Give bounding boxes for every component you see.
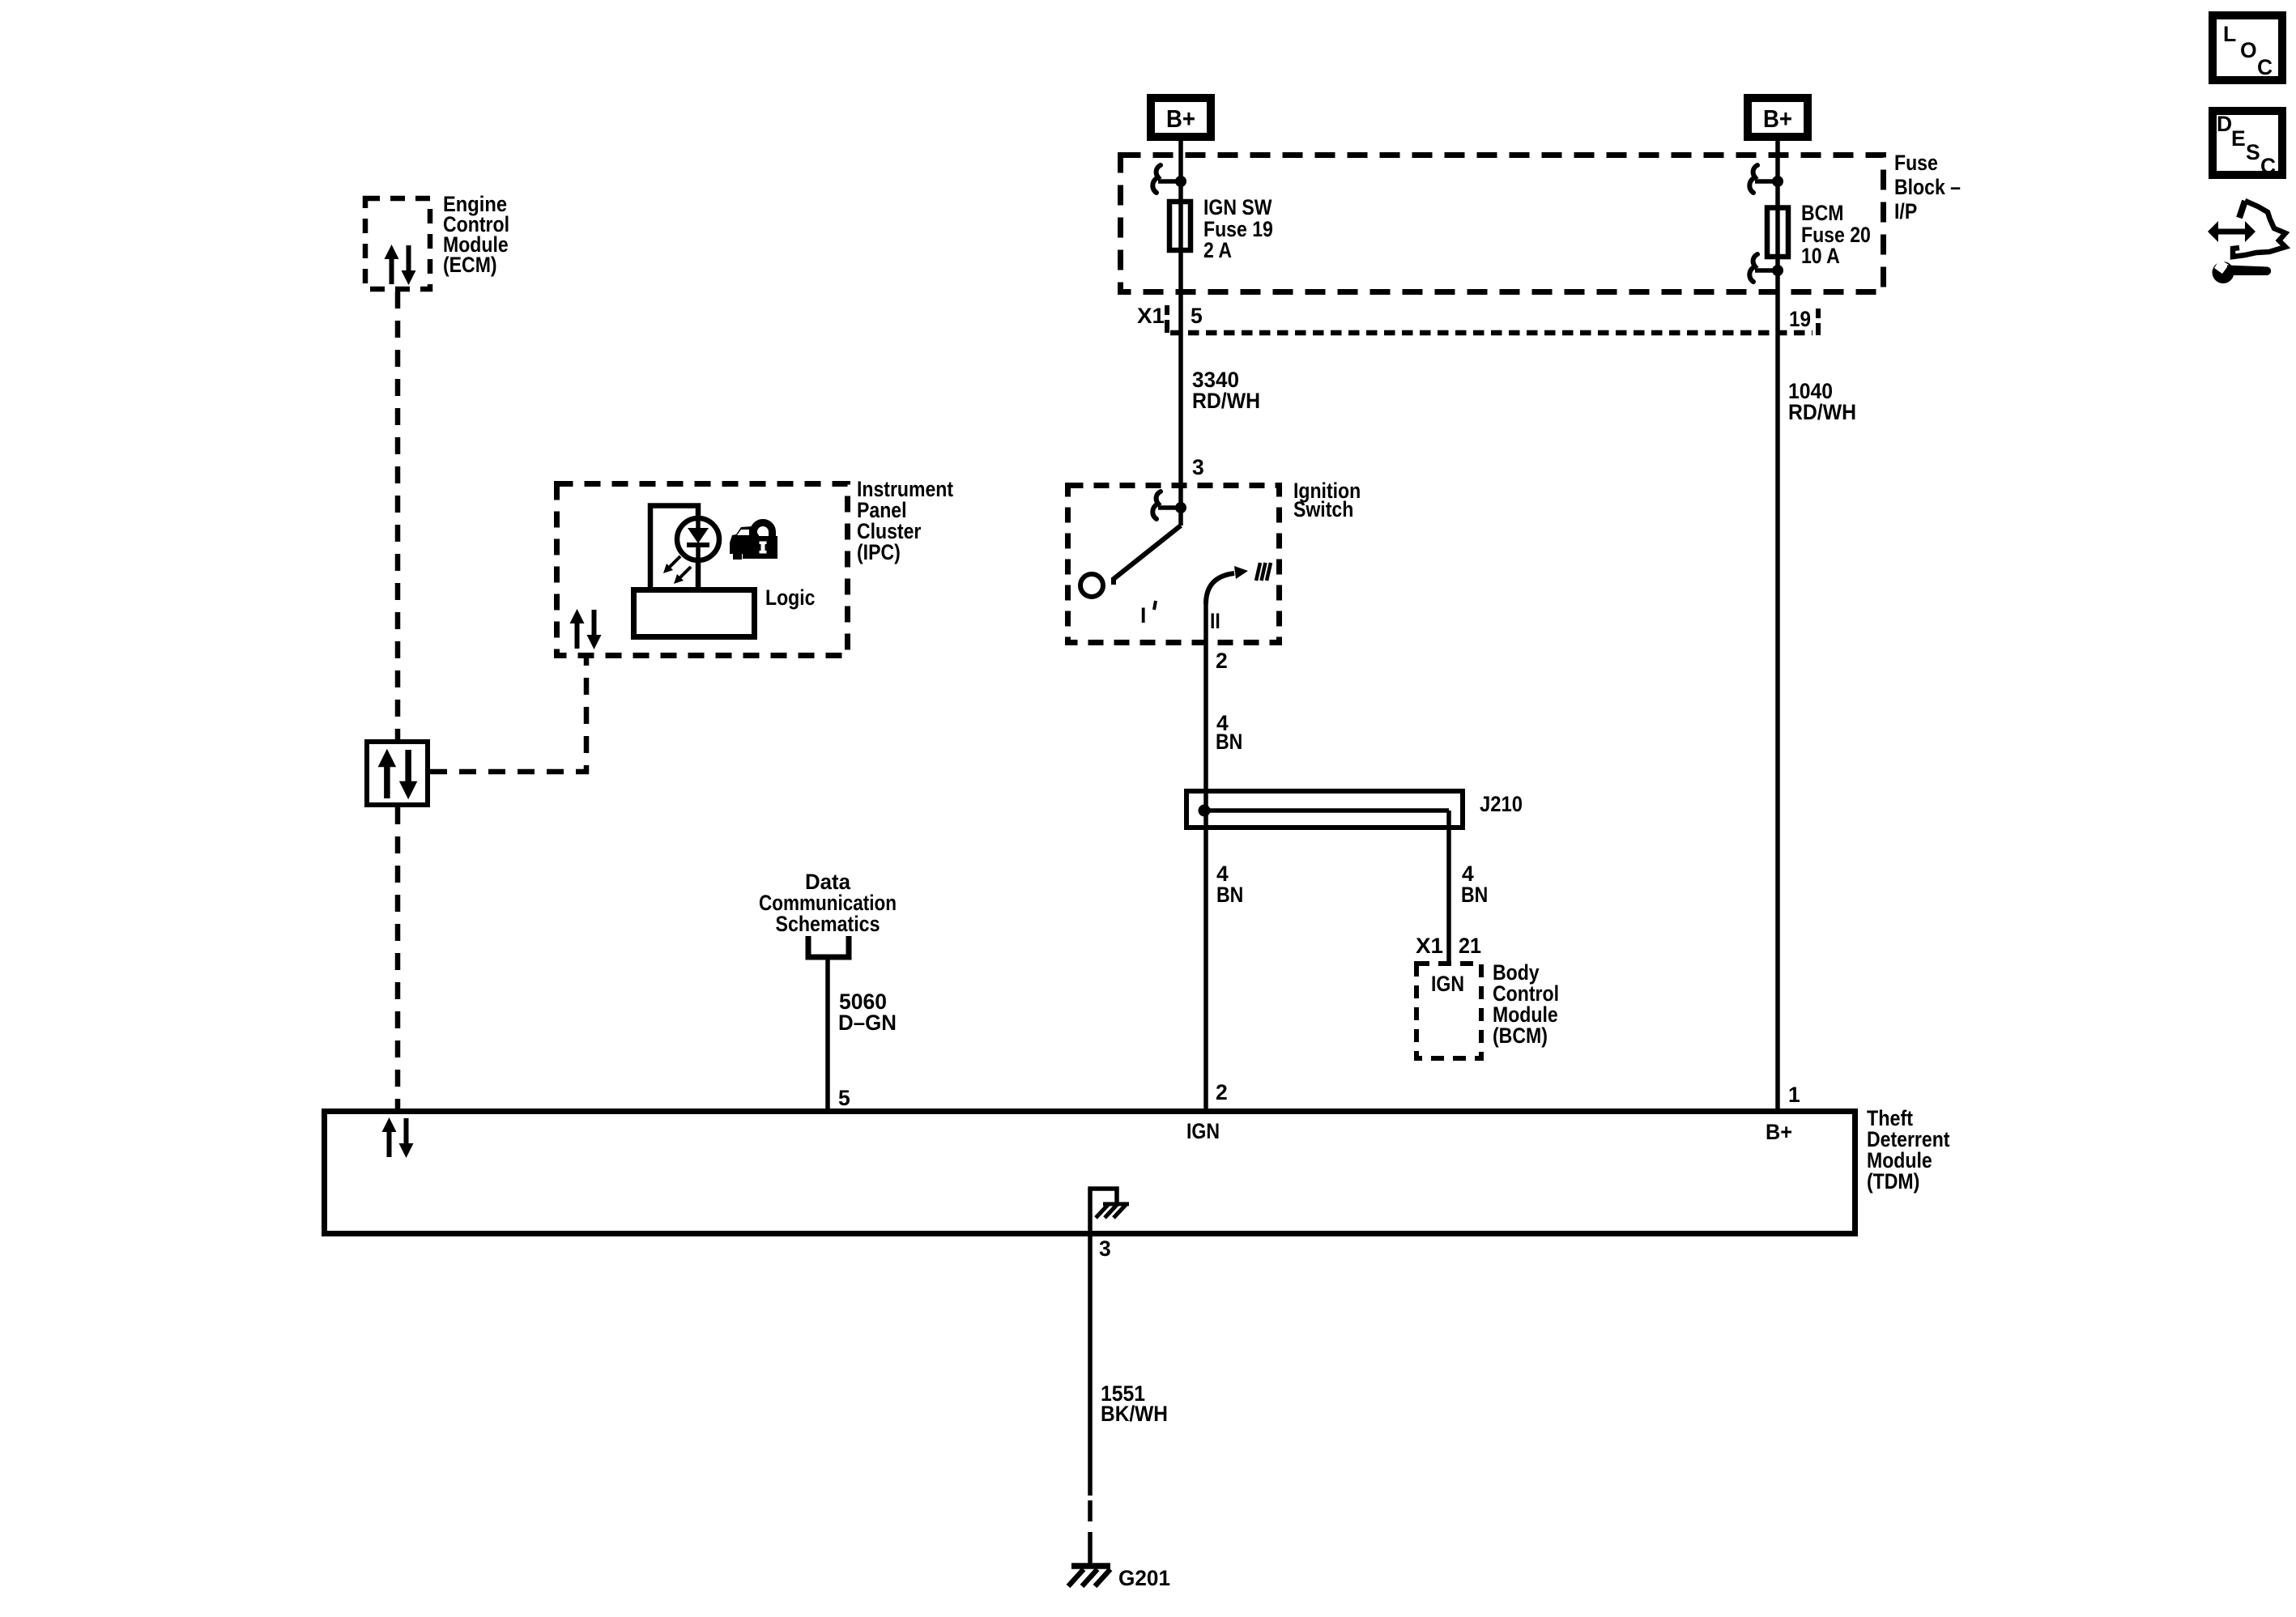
svg-text:(BCM): (BCM) — [1493, 1023, 1548, 1048]
svg-text:L: L — [2223, 22, 2236, 46]
svg-text:BK/WH: BK/WH — [1101, 1402, 1168, 1426]
svg-text:B+: B+ — [1766, 1120, 1792, 1144]
svg-text:S: S — [2246, 140, 2260, 164]
svg-text:D: D — [2217, 112, 2232, 136]
svg-text:D–GN: D–GN — [838, 1011, 897, 1035]
svg-text:G201: G201 — [1118, 1566, 1170, 1590]
svg-text:RD/WH: RD/WH — [1192, 389, 1260, 413]
svg-text:1: 1 — [1788, 1083, 1800, 1107]
svg-text:Schematics: Schematics — [776, 912, 880, 936]
svg-text:X1: X1 — [1416, 934, 1443, 958]
svg-text:BN: BN — [1461, 883, 1488, 907]
svg-text:II: II — [1210, 609, 1220, 633]
svg-text:Switch: Switch — [1293, 497, 1353, 521]
svg-text:Block –: Block – — [1894, 175, 1961, 199]
svg-text:2 A: 2 A — [1203, 238, 1232, 262]
svg-text:2: 2 — [1216, 1080, 1228, 1104]
svg-text:5: 5 — [838, 1086, 850, 1110]
svg-text:3: 3 — [1192, 455, 1204, 479]
svg-text:I: I — [1140, 603, 1146, 628]
svg-text:O: O — [2240, 38, 2257, 62]
svg-text:IGN: IGN — [1431, 972, 1464, 996]
svg-text:Logic: Logic — [765, 585, 816, 610]
svg-text:3: 3 — [1099, 1236, 1111, 1261]
svg-text:IGN: IGN — [1186, 1119, 1220, 1143]
svg-text:C: C — [2257, 55, 2273, 79]
svg-text:(TDM): (TDM) — [1867, 1169, 1919, 1194]
svg-text:2: 2 — [1216, 649, 1228, 673]
svg-text:21: 21 — [1459, 934, 1481, 958]
svg-text:Fuse: Fuse — [1894, 151, 1938, 175]
svg-text:IGN SW: IGN SW — [1203, 195, 1272, 219]
svg-text:C: C — [2260, 154, 2276, 178]
svg-text:10 A: 10 A — [1801, 244, 1840, 268]
svg-text:BCM: BCM — [1801, 201, 1844, 225]
svg-text:5: 5 — [1191, 304, 1203, 328]
svg-text:X1: X1 — [1137, 304, 1165, 328]
svg-text:(ECM): (ECM) — [443, 253, 497, 277]
svg-text:19: 19 — [1789, 307, 1811, 331]
svg-text:J210: J210 — [1480, 792, 1523, 816]
svg-text:E: E — [2231, 126, 2246, 151]
svg-text:B+: B+ — [1763, 104, 1792, 133]
svg-text:BN: BN — [1216, 883, 1243, 907]
svg-text:BN: BN — [1216, 730, 1242, 754]
svg-text:B+: B+ — [1166, 104, 1195, 133]
svg-text:RD/WH: RD/WH — [1788, 400, 1856, 424]
svg-text:(IPC): (IPC) — [857, 540, 901, 564]
svg-text:I/P: I/P — [1894, 199, 1917, 223]
